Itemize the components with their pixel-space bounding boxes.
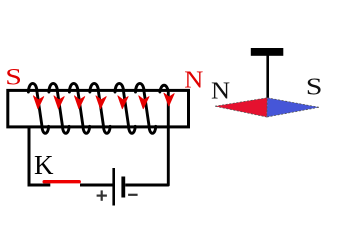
svg-text:K: K: [34, 150, 54, 180]
svg-text:S: S: [5, 64, 22, 90]
svg-text:N: N: [211, 78, 230, 104]
svg-text:S: S: [306, 73, 323, 100]
svg-text:N: N: [184, 67, 203, 93]
